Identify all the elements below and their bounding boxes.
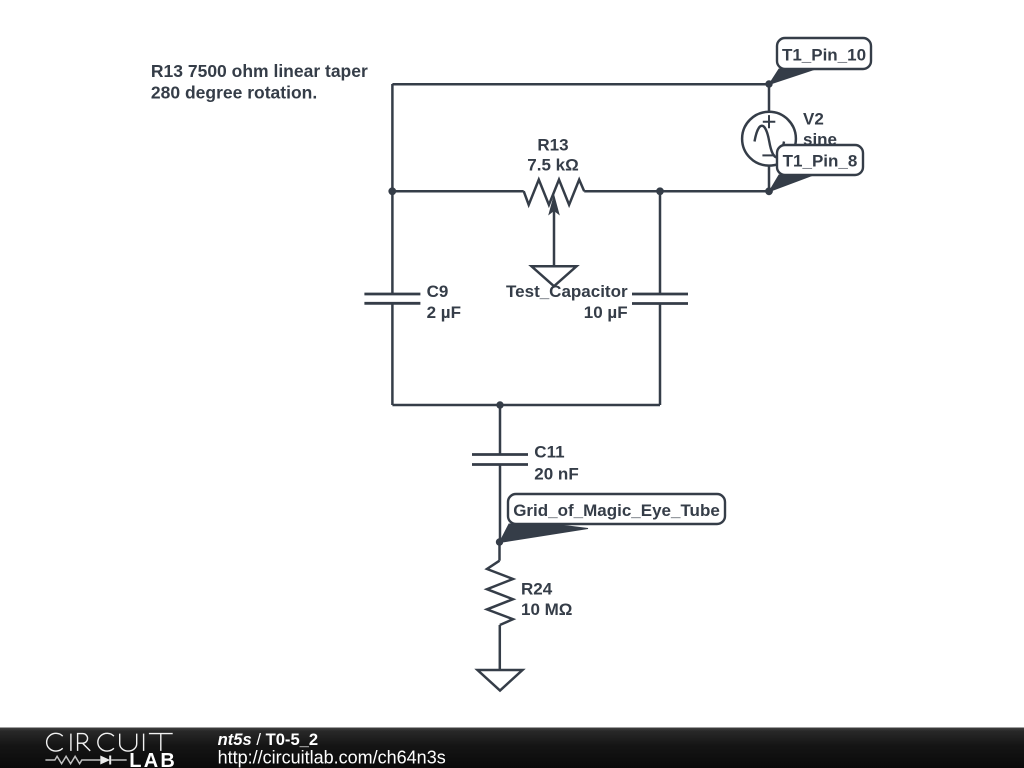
wire bottom — [392, 404, 660, 407]
svg-text:V2: V2 — [803, 110, 824, 129]
capacitor C11 plates — [472, 455, 528, 465]
voltage source V2 circle — [742, 112, 796, 166]
footer bar — [0, 728, 1024, 768]
flag T1_Pin_10 tail — [769, 69, 814, 85]
svg-text:20 nF: 20 nF — [534, 465, 578, 484]
junction dot right R13 row — [765, 187, 773, 195]
svg-text:T1_Pin_8: T1_Pin_8 — [783, 152, 858, 171]
svg-text:LAB: LAB — [129, 750, 177, 768]
wire left vertical lower — [391, 304, 394, 406]
svg-text:7.5 kΩ: 7.5 kΩ — [527, 156, 578, 175]
svg-text:http://circuitlab.com/ch64n3s: http://circuitlab.com/ch64n3s — [218, 748, 446, 768]
svg-text:C9: C9 — [427, 282, 449, 301]
svg-text:10 µF: 10 µF — [584, 303, 628, 322]
V2 plus sign — [763, 115, 776, 128]
flag T1_Pin_8 tail — [769, 175, 812, 192]
resistor R13 (potentiometer) zigzag — [524, 180, 585, 205]
svg-text:Grid_of_Magic_Eye_Tube: Grid_of_Magic_Eye_Tube — [513, 501, 720, 520]
junction dot left R13 row — [388, 187, 396, 195]
wire top — [392, 83, 769, 86]
svg-text:R24: R24 — [521, 580, 553, 599]
flag Grid_of_Magic_Eye_Tube tail — [500, 524, 589, 543]
svg-text:T1_Pin_10: T1_Pin_10 — [782, 46, 866, 65]
svg-text:10 MΩ: 10 MΩ — [521, 600, 572, 619]
wire mid vertical lower — [659, 304, 662, 406]
wire right vertical upper — [768, 84, 771, 112]
wire left vertical upper — [391, 84, 394, 294]
flag Grid_of_Magic_Eye_Tube box — [508, 494, 725, 524]
logo CIRCUIT wordmark — [47, 733, 173, 751]
junction dot bottom wire — [496, 401, 503, 408]
wire R24 top lead — [498, 542, 501, 561]
svg-text:R13: R13 — [537, 136, 568, 155]
resistor R24 zigzag — [487, 561, 513, 625]
capacitor C9 plates — [364, 294, 420, 303]
svg-text:nt5s / T0-5_2: nt5s / T0-5_2 — [218, 730, 319, 749]
ground on wiper (triangle) — [532, 266, 577, 286]
wire R24 bottom lead — [499, 625, 502, 670]
wire C11 drop upper — [499, 405, 502, 455]
svg-text:sine: sine — [803, 130, 837, 149]
wire mid vertical upper — [659, 191, 662, 294]
V2 minus sign — [762, 154, 775, 156]
logo resistor-diode strip — [45, 756, 100, 763]
logo diode — [100, 756, 110, 765]
wire R13 row left — [392, 190, 523, 193]
wire R13 row right — [584, 190, 769, 193]
junction dot grid node — [496, 538, 503, 545]
junction dot mid R13 row — [656, 187, 664, 195]
wire C11 drop lower — [499, 465, 502, 543]
svg-text:2 µF: 2 µF — [427, 303, 461, 322]
V2 sine wave — [755, 126, 785, 158]
capacitor Test_Capacitor plates — [632, 294, 688, 304]
svg-text:R13 7500 ohm linear taper: R13 7500 ohm linear taper — [151, 61, 368, 81]
junction dot top right — [765, 80, 772, 87]
svg-text:C11: C11 — [534, 443, 564, 462]
svg-text:Test_Capacitor: Test_Capacitor — [506, 282, 628, 301]
flag T1_Pin_10 box — [777, 38, 871, 69]
ground symbol bottom — [478, 670, 523, 691]
svg-text:280 degree rotation.: 280 degree rotation. — [151, 83, 317, 103]
wiper arrowhead — [548, 194, 560, 216]
flag T1_Pin_8 box — [777, 145, 863, 175]
wire right vertical lower — [768, 166, 771, 192]
wiper wire of R13 — [553, 200, 556, 266]
